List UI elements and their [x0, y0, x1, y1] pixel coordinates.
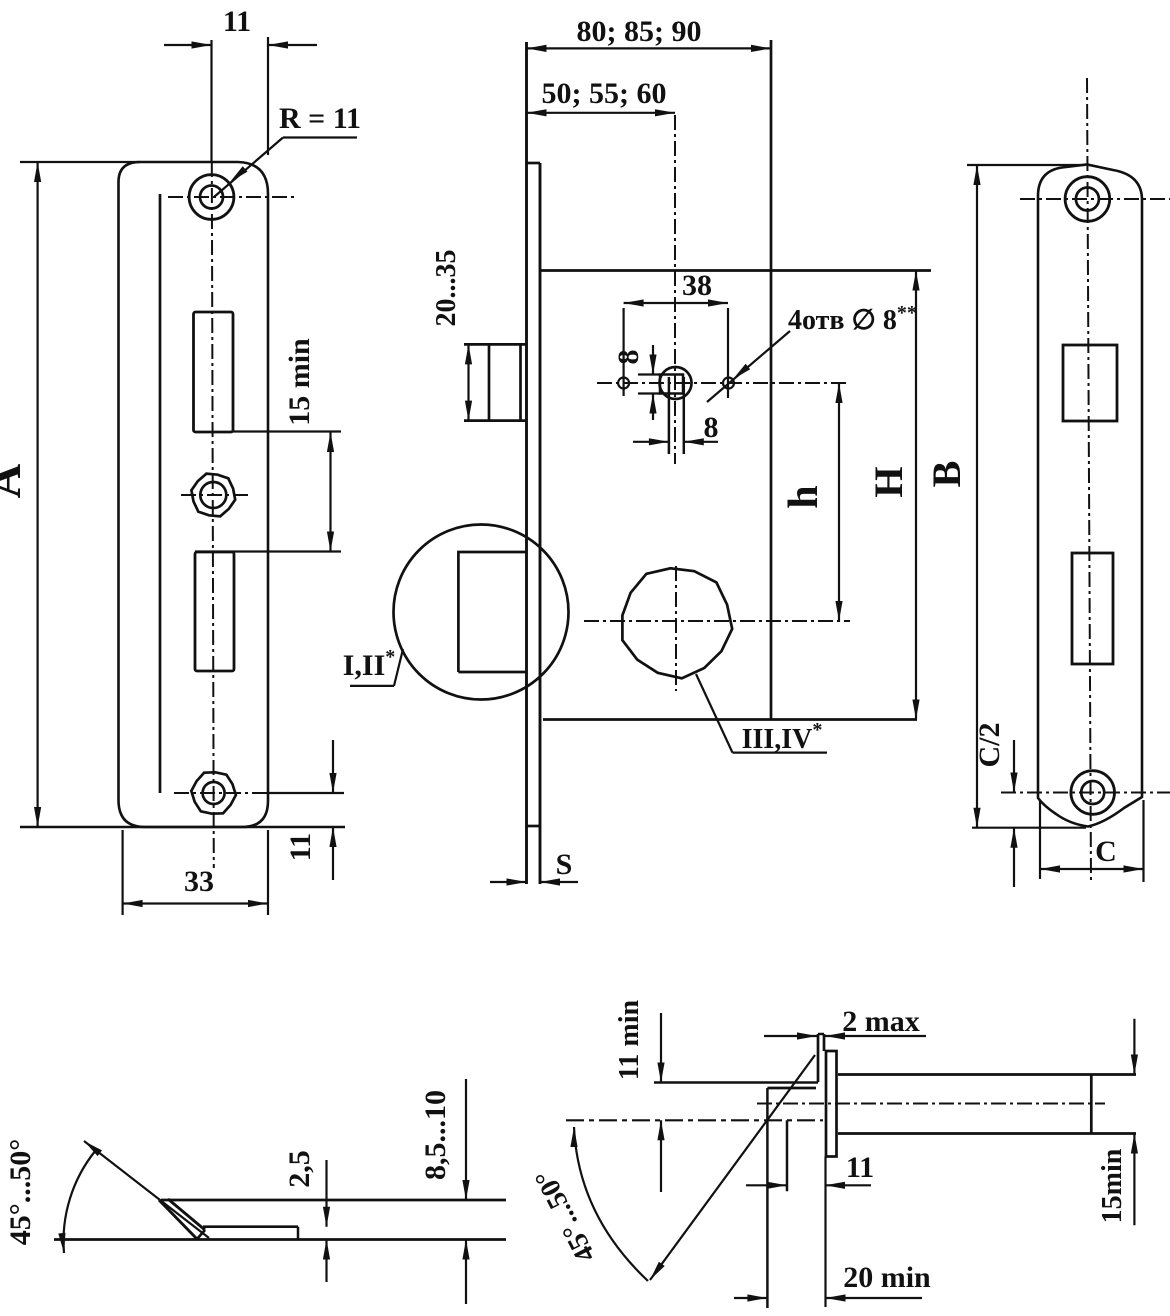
dim 11min lower seg [660, 1120, 662, 1192]
svg-text:III,IV*: III,IV* [742, 719, 823, 755]
dim 80-85-90 line [527, 47, 772, 49]
dim 8v extension top [638, 373, 660, 375]
dim 11b lower seg [332, 827, 334, 880]
R=11 leader line [214, 138, 283, 198]
latch bar centerline [757, 1103, 1105, 1105]
left plate top hole outer [189, 175, 234, 220]
left plate top hole inner [200, 186, 223, 209]
left plate outline [119, 162, 269, 827]
engagement dashed line [566, 1119, 823, 1121]
15min extension top [233, 430, 341, 432]
dim C/2 lower seg [1013, 828, 1015, 887]
svg-text:h: h [781, 485, 827, 508]
dim 11 top line left [164, 44, 212, 46]
right plate top hole inner [1076, 188, 1099, 211]
dim 8h left seg [633, 441, 669, 443]
dim 8.5-10 upper seg [465, 1079, 467, 1200]
dim 11min upper seg [660, 1013, 662, 1083]
dim 15min line [329, 432, 331, 552]
latch circle vertical centerline [675, 566, 677, 691]
latch bar top [838, 1073, 1136, 1076]
svg-text:S: S [556, 848, 573, 881]
dim 11b upper seg [332, 740, 334, 793]
svg-text:8,5...10: 8,5...10 [419, 1090, 452, 1180]
dim 11 extension right [267, 37, 269, 155]
svg-text:C: C [1095, 835, 1117, 868]
dim S right seg [540, 881, 578, 883]
dim 8v upper seg [652, 345, 654, 375]
svg-text:R = 11: R = 11 [279, 102, 361, 135]
svg-text:11: 11 [223, 5, 251, 38]
mount hole right [723, 378, 734, 389]
latch end tick [297, 1227, 300, 1240]
bottom hole horizontal centerline [174, 792, 268, 794]
extension of bottom hole centerline [268, 792, 344, 794]
dim 20min right seg [826, 1297, 923, 1299]
svg-text:11 min: 11 min [614, 1000, 645, 1081]
33 extension left [121, 830, 123, 915]
angle arc right detail [574, 1127, 648, 1281]
C extension left [1039, 800, 1041, 879]
faceplate top edge [527, 162, 541, 165]
latch bolt bottom [464, 419, 527, 422]
strike plate body [826, 1051, 837, 1157]
dim 20-35 line [467, 344, 469, 420]
dim 33 line [123, 902, 268, 904]
detail baseline [54, 1238, 506, 1241]
right plate vertical centerline [1087, 78, 1091, 881]
dim 11 right seg [825, 1184, 871, 1186]
extension centerline above plate [210, 40, 212, 162]
dim H line [915, 271, 917, 720]
dim C/2 upper seg [1013, 740, 1015, 793]
handle shaft cylinder [660, 367, 692, 399]
38 extension right [727, 308, 729, 398]
strike lip top [818, 1033, 824, 1036]
mount hole left [618, 378, 629, 389]
III-IV underline [733, 751, 828, 753]
left plate bottom hole outer [191, 772, 236, 813]
dim 11 top line right [268, 44, 317, 46]
dim 2.5 lower seg [325, 1240, 327, 1283]
B extension top [967, 164, 1085, 166]
svg-text:2 max: 2 max [842, 1005, 920, 1038]
svg-text:8: 8 [612, 350, 645, 365]
jamb surface line [654, 1081, 818, 1084]
pocket left line + extension [766, 1088, 769, 1308]
svg-text:A: A [0, 463, 31, 498]
dim 11 left seg [746, 1184, 787, 1186]
detail circle I-II [394, 525, 569, 700]
latch bottom line [203, 1225, 298, 1228]
svg-text:B: B [924, 461, 969, 488]
keyhole slot left line [668, 377, 671, 454]
dim C line [1040, 868, 1144, 870]
faceplate left line [525, 42, 528, 884]
svg-text:33: 33 [184, 865, 214, 898]
dim 8v lower seg [652, 394, 654, 421]
latch bar bottom [838, 1132, 1136, 1135]
bevel edge inner [168, 1199, 205, 1230]
square spindle hole [660, 375, 683, 394]
left plate bottom hole inner [203, 782, 225, 804]
faceplate bottom edge [527, 825, 541, 828]
lock body right edge + extension [770, 40, 773, 720]
svg-text:50; 55; 60: 50; 55; 60 [542, 77, 667, 110]
latch bolt top [464, 343, 527, 346]
angle reference line [84, 1141, 209, 1238]
svg-text:38: 38 [682, 269, 712, 302]
right bottom hole centerline [1001, 792, 1170, 794]
right plate slot 1 [1063, 345, 1117, 421]
right plate bottom hole inner [1081, 781, 1104, 804]
20min extension right [824, 1157, 826, 1308]
latch window rect in circle [458, 552, 526, 672]
lock body bottom edge [543, 718, 917, 721]
left plate slot 1 [194, 312, 234, 432]
latch circle III-IV [622, 568, 732, 678]
38 extension left [622, 308, 624, 396]
right plate outline [1038, 165, 1142, 827]
dim S left seg [490, 881, 527, 883]
bevel edge outer [159, 1200, 197, 1239]
latch bolt inner line 1 [488, 344, 491, 420]
dim 8h right seg [684, 441, 718, 443]
right plate bottom hole outer [1071, 771, 1115, 815]
bevel tip [197, 1230, 205, 1239]
dim 8v extension bottom [638, 392, 660, 394]
dim 2max right seg [825, 1035, 926, 1037]
dim B line [976, 165, 978, 828]
III-IV leader [696, 674, 733, 753]
dim 8.5-10 lower seg [465, 1240, 467, 1305]
R=11 underline [283, 136, 357, 138]
pocket inner vertical [786, 1120, 789, 1191]
latch bolt inner line 2 [519, 344, 522, 420]
svg-text:20 min: 20 min [843, 1261, 931, 1294]
keyhole slot right line [683, 377, 686, 454]
dim 50-55-60 line [527, 112, 676, 114]
svg-text:11: 11 [846, 1151, 874, 1184]
B extension bottom [972, 827, 1086, 829]
svg-text:15 min: 15 min [283, 338, 316, 426]
extension line top [20, 161, 140, 163]
svg-text:45°...50°: 45°...50° [4, 1139, 37, 1246]
right top hole centerline [1020, 198, 1170, 200]
I-II underline [350, 685, 394, 687]
right plate top hole outer [1065, 177, 1110, 222]
right plate slot 2 [1072, 553, 1113, 664]
holes horizontal centerline [597, 382, 850, 384]
dim 2.5 upper seg [325, 1160, 327, 1227]
dim 15min upper seg [1133, 1019, 1135, 1075]
dim 15min lower seg [1133, 1134, 1135, 1226]
dim 20min left seg [734, 1297, 767, 1299]
pocket top line [767, 1087, 816, 1090]
svg-text:15min: 15min [1097, 1148, 1128, 1223]
4otv leader line [707, 331, 790, 402]
angle arc [64, 1150, 96, 1253]
svg-text:80; 85; 90: 80; 85; 90 [577, 15, 702, 48]
left plate middle hole octagon [191, 474, 235, 517]
left plate middle hole inner [200, 482, 226, 508]
svg-text:H: H [866, 466, 911, 497]
svg-text:11: 11 [284, 833, 317, 861]
middle hole horizontal centerline [181, 494, 249, 496]
15min extension bottom [195, 550, 341, 552]
cylinder vertical centerline [674, 115, 676, 464]
angle diagonal line [650, 1055, 815, 1280]
svg-text:2,5: 2,5 [283, 1150, 316, 1188]
latch circle horizontal centerline [584, 620, 850, 622]
strike lip back line [823, 1034, 826, 1051]
strike lip front line [817, 1034, 820, 1082]
extension line bottom [20, 826, 345, 829]
left plate slot 2 [195, 552, 234, 671]
dim h line [838, 383, 840, 621]
faceplate right line [539, 163, 542, 884]
left plate inner edge [159, 194, 162, 793]
svg-text:20...35: 20...35 [431, 250, 462, 327]
I-II leader [394, 649, 403, 686]
top hole horizontal centerline [168, 196, 298, 198]
latch top line [161, 1199, 506, 1202]
C extension right [1142, 800, 1144, 882]
svg-text:8: 8 [704, 411, 719, 444]
dim A line [36, 162, 38, 827]
33 extension right [267, 830, 269, 915]
lock body top edge [540, 269, 931, 272]
left plate vertical centerline [212, 162, 214, 868]
dim 2max left seg [764, 1035, 817, 1037]
dim 38 line [624, 302, 728, 304]
latch bar head line [1090, 1075, 1093, 1134]
svg-text:C/2: C/2 [973, 723, 1006, 768]
